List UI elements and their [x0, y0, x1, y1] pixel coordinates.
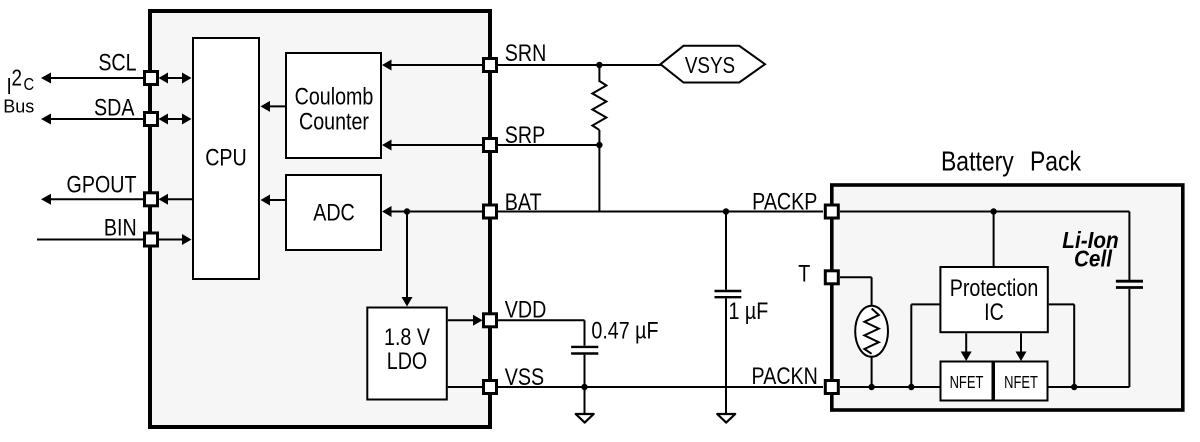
label SRN	[505, 39, 547, 66]
label BIN	[104, 214, 137, 241]
svg-text:GPOUT: GPOUT	[67, 170, 137, 197]
node VSS ground junction	[581, 384, 587, 390]
battery cell symbol	[1116, 281, 1143, 387]
svg-text:Counter: Counter	[299, 108, 369, 135]
wire PACKN internal right	[1049, 386, 1130, 388]
wire SRP to resistor	[497, 144, 599, 146]
label VSS	[505, 363, 544, 390]
svg-text:CPU: CPU	[205, 144, 247, 171]
wire thermistor to PACKN	[871, 357, 873, 387]
label SDA	[94, 94, 135, 121]
pin VDD	[484, 314, 497, 327]
wire gate drive right	[1016, 333, 1027, 361]
thermistor	[855, 306, 888, 357]
wire protection IC right sense	[1049, 304, 1074, 387]
CPU block	[193, 38, 259, 279]
svg-text:VDD: VDD	[505, 296, 547, 323]
wire LDO to VDD pin	[448, 315, 483, 326]
svg-text:SDA: SDA	[94, 94, 135, 121]
pin BAT	[484, 205, 497, 218]
wire Coulomb Counter to CPU	[261, 101, 287, 112]
wire SRP to Coulomb Counter	[382, 140, 483, 151]
pin VSS	[484, 381, 497, 394]
pin SDA	[145, 113, 158, 126]
label GPOUT	[67, 170, 137, 197]
wire BIN to CPU	[159, 234, 192, 245]
svg-text:PACKN: PACKN	[752, 362, 818, 389]
1.8V LDO block	[367, 308, 447, 400]
pin SRP	[484, 139, 497, 152]
wire SCL to CPU bidirectional	[159, 73, 192, 84]
wire BIN	[37, 239, 143, 241]
pin T	[825, 271, 838, 284]
wire CPU to GPOUT	[159, 194, 193, 205]
label BAT	[505, 188, 542, 215]
wire SDA to CPU bidirectional	[159, 114, 192, 125]
wire BAT to PACKP	[497, 211, 823, 213]
fuel gauge IC outline U1	[150, 11, 490, 427]
svg-text:NFET: NFET	[1004, 373, 1038, 393]
label T	[798, 260, 810, 287]
node BAT-LDO junction	[404, 208, 410, 214]
label 0.47 uF	[591, 317, 658, 344]
ADC block	[286, 175, 381, 250]
node protection IC top junction	[990, 208, 996, 214]
pin SRN	[484, 59, 497, 72]
wire gate drive left	[961, 333, 972, 361]
label Battery Pack	[941, 146, 1081, 177]
wire SRN to Coulomb Counter	[382, 60, 483, 71]
wire protection IC supply drop	[993, 212, 995, 267]
svg-text:PACKP: PACKP	[752, 188, 817, 215]
battery pack outline	[832, 185, 1183, 410]
wire BAT to ADC	[382, 206, 483, 217]
node SRP junction	[596, 142, 602, 148]
wire cell top drop	[1128, 212, 1130, 281]
svg-text:IC: IC	[984, 298, 1004, 325]
pin PACKP	[825, 205, 838, 218]
label PACKN	[752, 362, 818, 389]
svg-text:VSYS: VSYS	[685, 53, 735, 78]
label PACKP	[752, 188, 817, 215]
label SRP	[505, 121, 545, 148]
wire SRN to VSYS	[497, 64, 661, 66]
svg-text:T: T	[798, 260, 810, 287]
svg-text:Coulomb: Coulomb	[295, 83, 374, 110]
resistor sense	[592, 81, 606, 145]
wire VSS to PACKN	[497, 386, 823, 388]
transistor NFET 2	[994, 362, 1048, 401]
wire PACKP internal	[840, 211, 1129, 213]
pin PACKN	[825, 381, 838, 394]
label 1 uF	[729, 297, 769, 324]
wire ADC to CPU	[261, 195, 287, 206]
wire LDO to VSS pin	[448, 386, 483, 388]
ground at 0.47uF	[576, 387, 594, 423]
wire SRN junction down to resistor	[598, 65, 600, 82]
node thermistor junction	[868, 384, 874, 390]
ground at 1uF	[717, 414, 735, 423]
node protection right junction	[1071, 384, 1077, 390]
svg-text:ADC: ADC	[313, 199, 355, 226]
capacitor 0.47uF	[571, 347, 598, 387]
label SCL	[98, 49, 136, 76]
wire PACKN internal left	[840, 386, 940, 388]
svg-text:SRN: SRN	[505, 39, 547, 66]
svg-text:SCL: SCL	[98, 49, 136, 76]
transistor NFET 1	[941, 362, 993, 401]
wire SCL	[41, 73, 143, 84]
svg-text:Battery: Battery	[941, 146, 1014, 177]
svg-text:BIN: BIN	[104, 214, 137, 241]
pin BIN	[145, 233, 158, 246]
wire GPOUT	[41, 194, 143, 205]
svg-text:Cell: Cell	[1074, 245, 1113, 271]
pin SCL	[145, 72, 158, 85]
wire protection IC left sense	[911, 304, 939, 387]
svg-text:0.47 µF: 0.47 µF	[591, 317, 658, 344]
wire SDA	[41, 114, 143, 125]
svg-text:1 µF: 1 µF	[729, 297, 769, 324]
capacitor 1uF	[715, 212, 742, 415]
svg-text:C: C	[24, 75, 35, 95]
svg-text:Bus: Bus	[3, 96, 34, 116]
svg-text:Pack: Pack	[1030, 146, 1081, 177]
svg-text:NFET: NFET	[950, 373, 984, 393]
pin GPOUT	[145, 193, 158, 206]
node SRN junction	[596, 62, 602, 68]
node 1uF junction on BAT	[723, 208, 729, 214]
net VSYS	[661, 46, 766, 83]
label Li-Ion Cell	[1062, 227, 1118, 272]
wire VDD to 0.47uF	[497, 320, 585, 345]
Coulomb Counter block	[286, 53, 381, 158]
wire T internal	[840, 277, 872, 307]
label VDD	[505, 296, 547, 323]
label I2C Bus	[3, 66, 34, 116]
node protection left junction	[908, 384, 914, 390]
protection IC block	[940, 267, 1047, 332]
wire SRP junction down to BAT line	[598, 145, 600, 212]
wire BAT junction down to LDO	[402, 212, 413, 307]
svg-text:LDO: LDO	[387, 347, 427, 374]
svg-text:2: 2	[12, 66, 22, 91]
